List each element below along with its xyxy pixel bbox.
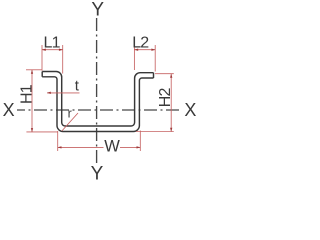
H2 extension bottom (136, 131, 174, 133)
svg-text:Y: Y (91, 0, 104, 20)
svg-text:Y: Y (91, 164, 104, 185)
H1 arrow bottom (31, 128, 33, 132)
W extension left (57, 131, 59, 151)
svg-text:W: W (104, 137, 120, 155)
dimension W line left part (58, 146, 104, 148)
H1 arrow top (31, 70, 33, 74)
thickness t leader line (47, 92, 80, 94)
L1 arrow left (42, 49, 46, 51)
axis Y-Y centerline (96, 18, 98, 166)
H1 extension top (26, 69, 42, 71)
W arrow right (137, 146, 141, 148)
svg-text:r: r (68, 107, 72, 121)
channel profile upper/inner surface (42, 72, 153, 127)
radius r leader line (62, 113, 78, 131)
svg-text:X: X (184, 100, 196, 120)
dimension L1 line (42, 49, 63, 51)
L2 arrow right (151, 49, 155, 51)
svg-text:L2: L2 (132, 35, 149, 52)
L1 extension right (62, 45, 64, 74)
dimension L2 line (134, 49, 155, 51)
L2 arrow left (134, 49, 138, 51)
right lip end cap (153, 73, 155, 78)
H2 arrow top (170, 74, 172, 78)
H1 extension bottom (26, 131, 58, 133)
L2 extension right (154, 45, 156, 72)
H2 extension top (155, 73, 174, 75)
dimension H2 line (170, 74, 172, 132)
channel profile lower/outer surface (42, 77, 153, 132)
L1 extension left (41, 45, 43, 71)
W arrow left (58, 146, 62, 148)
svg-text:H2: H2 (157, 88, 174, 108)
H2 arrow bottom (170, 128, 172, 132)
svg-text:H1: H1 (19, 84, 36, 104)
svg-text:X: X (3, 100, 15, 120)
dimension H1 line (31, 70, 33, 132)
svg-text:L1: L1 (44, 35, 61, 52)
W extension right (139, 131, 141, 152)
dimension W line right part (120, 146, 140, 148)
left lip end cap (41, 72, 43, 77)
axis X-X centerline (17, 109, 180, 111)
L2 extension left (133, 45, 135, 70)
L1 arrow right (59, 49, 63, 51)
t leader arrow (47, 92, 51, 94)
